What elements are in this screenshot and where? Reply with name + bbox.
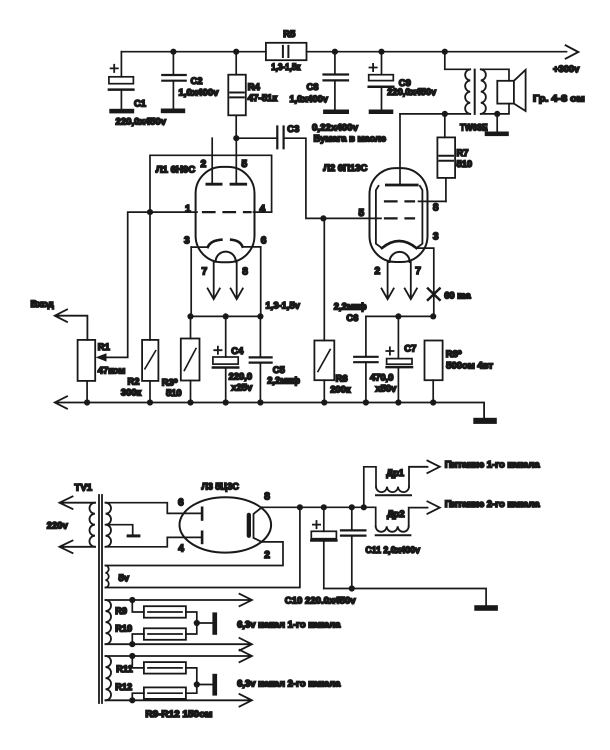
wire B+ rail right segment [307, 51, 567, 53]
svg-text:+300v: +300v [553, 63, 580, 74]
node R11-R12 dot [194, 681, 200, 687]
svg-text:510: 510 [457, 158, 473, 169]
svg-text:47ком: 47ком [98, 364, 126, 375]
svg-text:C10 220.0x450v: C10 220.0x450v [285, 594, 357, 605]
svg-text:x50v: x50v [375, 382, 397, 393]
svg-text:х25v: х25v [231, 381, 253, 392]
tube Л1 envelope [196, 167, 255, 262]
wire speaker ground drop [496, 114, 498, 132]
tube Л1 anode b plate [231, 183, 246, 186]
wire HV top lead to pin6 [106, 503, 201, 514]
svg-text:6: 6 [178, 497, 184, 508]
tube Л1 grid left lead [150, 211, 197, 213]
wire Л2 cathode bus [366, 315, 433, 317]
svg-text:Бумага в масле: Бумага в масле [314, 133, 387, 144]
node junction R4-C3 dot [233, 135, 239, 141]
node rail dot R6 [321, 399, 327, 405]
ground speaker [485, 132, 509, 137]
svg-text:2,2мкф: 2,2мкф [334, 300, 367, 311]
svg-text:8: 8 [264, 492, 270, 503]
transformer TV1 HV winding [106, 503, 112, 547]
ground chassis HV tap [127, 534, 141, 537]
resistor R3 [181, 316, 200, 402]
svg-text:Л1 6Н9С: Л1 6Н9С [156, 165, 195, 176]
wire secondary top lead [481, 69, 509, 81]
wire heater1 bottom with arrowhead [106, 638, 252, 650]
wire to chassis 1 [197, 622, 213, 624]
svg-text:С6: С6 [346, 312, 358, 323]
capacitor C5 [250, 316, 272, 402]
wire heater1 top with arrowhead [106, 594, 252, 606]
wire Л1 grid box [150, 155, 272, 212]
resistor R5 [266, 43, 307, 60]
wire Л1 cathode box right [260, 247, 262, 317]
node junction primary-R7 dot [442, 111, 448, 117]
capacitor C2 [162, 52, 185, 109]
ground C1 [109, 109, 134, 114]
node junction grid dot [147, 209, 153, 215]
transformer TV1 heater winding 2 [106, 656, 112, 700]
tube Л1 anode a plate [207, 183, 221, 186]
transformer TV1 heater winding 1 [106, 600, 112, 644]
node R9-R10 dot [194, 620, 200, 626]
svg-text:5: 5 [242, 159, 248, 170]
wire pin3 lead [191, 246, 208, 248]
tube Л3 anode 1 [201, 508, 204, 520]
transformer TV1 core [99, 495, 102, 703]
svg-text:R8*: R8* [446, 348, 462, 359]
choke Др1 output with arrowhead [409, 461, 440, 487]
svg-text:220v: 220v [47, 520, 69, 531]
svg-text:C5: C5 [273, 364, 285, 375]
capacitor C8 [324, 52, 349, 110]
svg-text:510: 510 [166, 387, 182, 398]
svg-text:Гр. 4-8 ом: Гр. 4-8 ом [533, 93, 585, 104]
node junction speaker-ground dot [494, 111, 500, 117]
node cathode bus dot C4 [223, 313, 229, 319]
svg-text:300к: 300к [121, 386, 142, 397]
node junction grid R6 dot [320, 215, 326, 221]
capacitor C9 [369, 52, 394, 110]
speaker Гр [497, 70, 525, 111]
transformer TV1 primary winding [89, 503, 95, 547]
tube Л2 envelope [370, 168, 428, 262]
svg-text:Питание 1-го канала: Питание 1-го канала [445, 459, 541, 469]
node rail dot C7 [395, 399, 401, 405]
tube Л2 screen grid dashed [385, 200, 414, 202]
svg-text:4: 4 [178, 544, 184, 555]
node heater2 bottom dot [129, 697, 135, 703]
transformer TW6SE primary winding [465, 69, 470, 114]
node rail dot C10 [321, 504, 327, 510]
tube Л1 cathode left arc [208, 240, 222, 247]
wire TW6SE primary bottom lead to anode node [400, 113, 470, 115]
svg-text:C1: C1 [134, 98, 146, 109]
wire to chassis 2 [197, 684, 213, 686]
choke Др2 input lead [364, 507, 376, 526]
capacitor C6 [354, 316, 377, 402]
svg-text:Л3 5ЦЗС: Л3 5ЦЗС [202, 480, 240, 491]
svg-text:R2: R2 [128, 375, 140, 386]
node ground line dot C11 [349, 585, 355, 591]
transformer TV1 5v winding [106, 566, 109, 588]
node junction TW6SE rail dot [442, 49, 448, 55]
node cathode bus dot right [257, 313, 263, 319]
svg-text:2,2мкф: 2,2мкф [267, 375, 300, 386]
svg-text:0,22x400v: 0,22x400v [312, 121, 359, 132]
tube Л2 cathode arc [382, 241, 417, 248]
wire TV1 primary bottom lead with arrowhead [60, 541, 96, 553]
wire heater2 bottom with arrowhead [106, 694, 252, 706]
svg-text:3: 3 [184, 235, 190, 246]
wire secondary bottom lead [481, 104, 509, 114]
node rail dot R1 [84, 399, 90, 405]
tube Л2 anode lead [399, 114, 401, 183]
tube Л1 anode b lead [235, 138, 237, 182]
tube Л1 heater pin7 [208, 262, 220, 300]
svg-text:1,0x400v: 1,0x400v [179, 87, 220, 98]
transformer TW6SE core [474, 70, 476, 114]
svg-text:1: 1 [185, 204, 191, 215]
node rail dot C4 [223, 399, 229, 405]
node junction C8 rail dot [332, 49, 338, 55]
capacitor C4 [213, 316, 238, 402]
wire pin8 B+ rail [262, 506, 366, 508]
ground C8 [323, 110, 349, 115]
node rail dot R2 [147, 399, 153, 405]
node rail dot B+ takeoff [297, 504, 303, 510]
svg-text:R11: R11 [116, 664, 132, 674]
svg-text:TV1: TV1 [75, 483, 93, 494]
wire pin3 lead [416, 248, 433, 316]
wire TW6SE primary top lead [445, 52, 470, 70]
node cathode bus dot left [187, 313, 193, 319]
tube Л3 filament bar [247, 513, 251, 538]
svg-text:470,0: 470,0 [370, 371, 393, 382]
tube Л2 beam plate left [376, 186, 382, 248]
node junction C9 rail dot [378, 49, 384, 55]
wire ground rail with arrowhead [55, 396, 484, 417]
svg-text:220,0: 220,0 [229, 370, 252, 381]
tube Л1 grid right lead [254, 211, 272, 213]
node junction R4 rail dot [233, 49, 239, 55]
node R1 wiper arrowhead [96, 353, 107, 361]
svg-text:1,3-1,5к: 1,3-1,5к [271, 62, 301, 72]
choke Др2 output with arrowhead [409, 501, 440, 526]
node heater1 bottom dot [129, 641, 135, 647]
tube Л3 anode 2 [201, 532, 204, 543]
capacitor C10 [311, 507, 336, 588]
svg-text:R1: R1 [98, 341, 110, 352]
potentiometer R1 [78, 340, 96, 381]
resistor R7 [437, 114, 455, 201]
svg-text:2: 2 [375, 266, 381, 277]
svg-text:5v: 5v [119, 572, 130, 583]
wire TV1 primary top lead with arrowhead [60, 497, 96, 509]
capacitor C3 [236, 127, 323, 219]
resistor R10 [132, 623, 197, 644]
tube Л2 beam plate right [416, 186, 422, 248]
resistor R12 [132, 685, 197, 701]
svg-text:200к: 200к [330, 383, 351, 394]
tube Л1 heater pin8 [231, 262, 243, 300]
svg-text:R4: R4 [248, 81, 261, 92]
tube Л2 heater pin7 [405, 262, 417, 299]
node bus dot R8 [430, 313, 436, 319]
wire Л1 cathode box left [190, 247, 192, 316]
svg-text:Л2 6П13С: Л2 6П13С [323, 163, 367, 174]
node heater1 top dot [129, 597, 135, 603]
tube Л2 heater pin2 [382, 262, 394, 299]
wire B+ rail left segment [121, 51, 266, 53]
wire grid lead left [323, 217, 381, 219]
svg-text:5: 5 [359, 208, 365, 219]
choke Др1 winding [376, 487, 409, 493]
tube Л1 cathode right arc [231, 240, 242, 247]
resistor R2 [142, 212, 158, 402]
ground chassis bar 2 [212, 674, 217, 696]
node bus dot C7 [395, 313, 401, 319]
wire heater2 top with arrowhead [106, 650, 252, 662]
svg-text:8: 8 [242, 267, 248, 278]
svg-text:7: 7 [415, 266, 421, 277]
wire input with arrowhead [55, 310, 88, 340]
wire Л1 cathode bus [191, 315, 261, 317]
svg-text:1,3-1,5v: 1,3-1,5v [266, 299, 301, 310]
tube Л3 filament line [254, 507, 262, 542]
transformer TW6SE secondary winding [481, 69, 486, 114]
svg-text:47-51к: 47-51к [248, 92, 278, 103]
svg-text:1,0x400v: 1,0x400v [290, 93, 329, 104]
svg-text:6: 6 [261, 235, 267, 246]
svg-text:TW6SE: TW6SE [460, 121, 488, 132]
node rail dot R8 [430, 399, 436, 405]
resistor R6 [314, 218, 334, 402]
ground symbol PSU [474, 605, 498, 611]
tube Л2 heater dome [390, 252, 410, 262]
svg-text:2: 2 [264, 550, 270, 561]
svg-text:220,0x450v: 220,0x450v [387, 86, 437, 97]
tube Л1 anode a lead [211, 138, 213, 182]
tube Л2 control grid dashed [385, 217, 414, 219]
svg-text:3: 3 [433, 232, 439, 243]
resistor R9 [132, 600, 197, 623]
choke Др1 core [376, 494, 411, 496]
resistor R4 [228, 52, 246, 139]
ground symbol right [473, 418, 497, 424]
resistor R8 [425, 341, 443, 403]
tube Л1 grid dashed [203, 211, 251, 213]
svg-text:C11 2,0x400v: C11 2,0x400v [365, 544, 420, 555]
wire R1 bottom lead [86, 381, 88, 403]
svg-text:500ом 4вт: 500ом 4вт [446, 359, 493, 370]
node rail dot C11 [349, 504, 355, 510]
svg-text:C8: C8 [307, 81, 319, 92]
svg-text:220,0x450v: 220,0x450v [116, 116, 167, 127]
ground chassis bar 1 [212, 612, 217, 634]
ground C9 [369, 110, 394, 115]
svg-text:C2: C2 [191, 75, 203, 86]
node rail dot C6 [363, 399, 369, 405]
svg-text:R9-R12 150ом: R9-R12 150ом [145, 708, 212, 719]
node rail dot R3 [187, 399, 193, 405]
tube Л3 envelope [180, 497, 272, 552]
svg-text:8: 8 [433, 202, 439, 213]
capacitor C11 [341, 507, 365, 588]
tube Л2 anode plate [386, 184, 417, 187]
capacitor C1 [109, 52, 133, 109]
ground C2 [161, 109, 185, 114]
svg-text:R7: R7 [457, 147, 469, 158]
svg-text:2: 2 [201, 159, 207, 170]
wire screen to R7 [419, 200, 446, 202]
wire pin6 lead [243, 246, 261, 248]
svg-text:Др1: Др1 [386, 467, 404, 478]
choke Др2 core [376, 534, 411, 536]
node X 60ma [428, 289, 440, 300]
svg-text:R9: R9 [115, 606, 127, 616]
svg-text:6,3v накал 2-го канала: 6,3v накал 2-го канала [237, 679, 341, 689]
wire R1 wiper [107, 212, 151, 357]
node +300v arrowhead [566, 45, 579, 58]
node rail dot chokes [361, 504, 367, 510]
svg-text:Питание 2-го канала: Питание 2-го канала [445, 499, 541, 509]
svg-text:C7: C7 [404, 343, 416, 354]
wire HV center tap [106, 525, 133, 535]
svg-text:R10: R10 [115, 624, 132, 634]
svg-text:4: 4 [260, 204, 266, 215]
node heater2 top dot [129, 653, 135, 659]
svg-text:R12: R12 [115, 682, 132, 692]
resistor R11 [132, 656, 197, 685]
svg-text:6,3v накал 1-го канала: 6,3v накал 1-го канала [237, 620, 341, 630]
svg-text:C4: C4 [231, 345, 244, 356]
svg-text:60 ma: 60 ma [444, 289, 471, 300]
svg-text:R6: R6 [336, 372, 348, 383]
wire ground line [324, 589, 486, 606]
node junction C1-C2 rail dot [170, 49, 176, 55]
tube Л1 heater dome [216, 252, 236, 262]
choke Др1 input lead [364, 467, 376, 508]
wire HV bottom lead to pin4 [106, 537, 201, 546]
capacitor C7 [386, 316, 412, 402]
svg-text:7: 7 [202, 267, 208, 278]
svg-text:С3: С3 [287, 123, 299, 134]
node rail dot C5 [257, 399, 263, 405]
wire B+ takeoff line [106, 507, 300, 587]
wire pin2 return loop [106, 542, 284, 566]
choke Др2 winding [376, 526, 409, 532]
svg-text:Др2: Др2 [387, 508, 405, 519]
svg-text:Вход: Вход [31, 298, 54, 309]
svg-text:R5: R5 [283, 28, 295, 39]
